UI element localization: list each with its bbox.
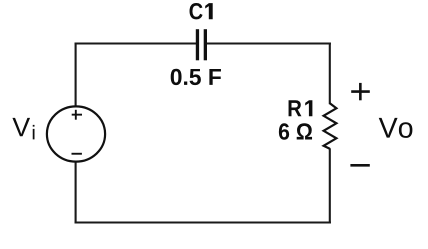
wire top-right segment — [206, 42, 331, 44]
wire left lower vertical — [75, 162, 77, 224]
plus polarity mark Vo — [351, 83, 370, 100]
voltage source Vi — [47, 106, 105, 161]
resistor R1 — [324, 103, 337, 149]
capacitor C1 — [196, 29, 207, 60]
wire right lower vertical — [329, 148, 331, 223]
label C1 — [190, 3, 213, 19]
wire right upper vertical — [329, 43, 331, 105]
wire top-left segment — [75, 42, 197, 44]
label Vo — [379, 118, 413, 138]
label R1 — [289, 100, 313, 116]
value 0.5 F — [171, 69, 221, 85]
value 6 ohm — [279, 123, 312, 139]
wire left upper vertical — [75, 43, 77, 107]
label Vi — [12, 118, 34, 140]
minus polarity mark Vo — [350, 164, 369, 167]
wire bottom segment — [75, 221, 331, 223]
